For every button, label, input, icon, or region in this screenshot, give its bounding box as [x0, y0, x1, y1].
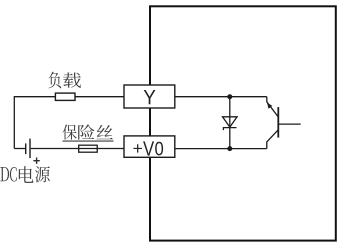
junction dot B (bottom) — [227, 146, 232, 151]
wire: left vertical drop — [13, 96, 15, 148]
label text 丝 (fuse) — [97, 125, 113, 139]
wire: Y terminal to junction A — [175, 96, 267, 98]
label text C (DC power) — [10, 167, 17, 182]
transistor Q1 arrow — [267, 103, 272, 109]
transistor Q1 base bar — [277, 107, 279, 138]
label text 电 (DC power) — [19, 166, 34, 183]
battery BT1 long plate — [29, 139, 31, 159]
junction dot A (top) — [227, 94, 232, 99]
load resistor body — [55, 93, 75, 100]
label text 保 (fuse) — [63, 125, 77, 140]
transistor Q1 emitter diagonal — [267, 130, 278, 142]
zener diode VD triangle — [223, 117, 238, 127]
label text D (DC power) — [0, 167, 9, 181]
wire: battery to fuse — [31, 148, 79, 150]
battery plus sign — [33, 158, 39, 164]
wire: +V0 terminal to junction B — [175, 148, 267, 150]
label text 载 (load) — [63, 72, 81, 87]
terminal label Y — [144, 90, 156, 104]
label text 险 (fuse) — [78, 125, 94, 140]
label text 源 (DC power) — [35, 166, 50, 182]
wire: top rail left segment (load circuit) — [14, 96, 124, 98]
label text 负 (load) — [49, 72, 62, 89]
wire: bottom rail to battery — [14, 148, 25, 150]
wire: through fuse to +V0 box — [79, 148, 124, 150]
wire: collector corner — [266, 97, 268, 103]
PLC enclosure box — [150, 6, 336, 240]
battery BT1 short plate — [25, 143, 27, 154]
wire: diode branch vertical — [229, 97, 231, 149]
terminal box Y — [124, 85, 175, 108]
transistor Q1 collector diagonal — [267, 102, 278, 117]
transistor Q1 base lead — [278, 123, 300, 125]
underline of 保险丝 — [63, 140, 114, 142]
terminal box +V0 — [124, 136, 175, 157]
terminal label +V0 — [133, 144, 142, 152]
zener diode VD cathode bar with tick — [223, 128, 236, 131]
fuse F1 body — [79, 145, 98, 152]
wire: emitter corner — [266, 142, 268, 149]
